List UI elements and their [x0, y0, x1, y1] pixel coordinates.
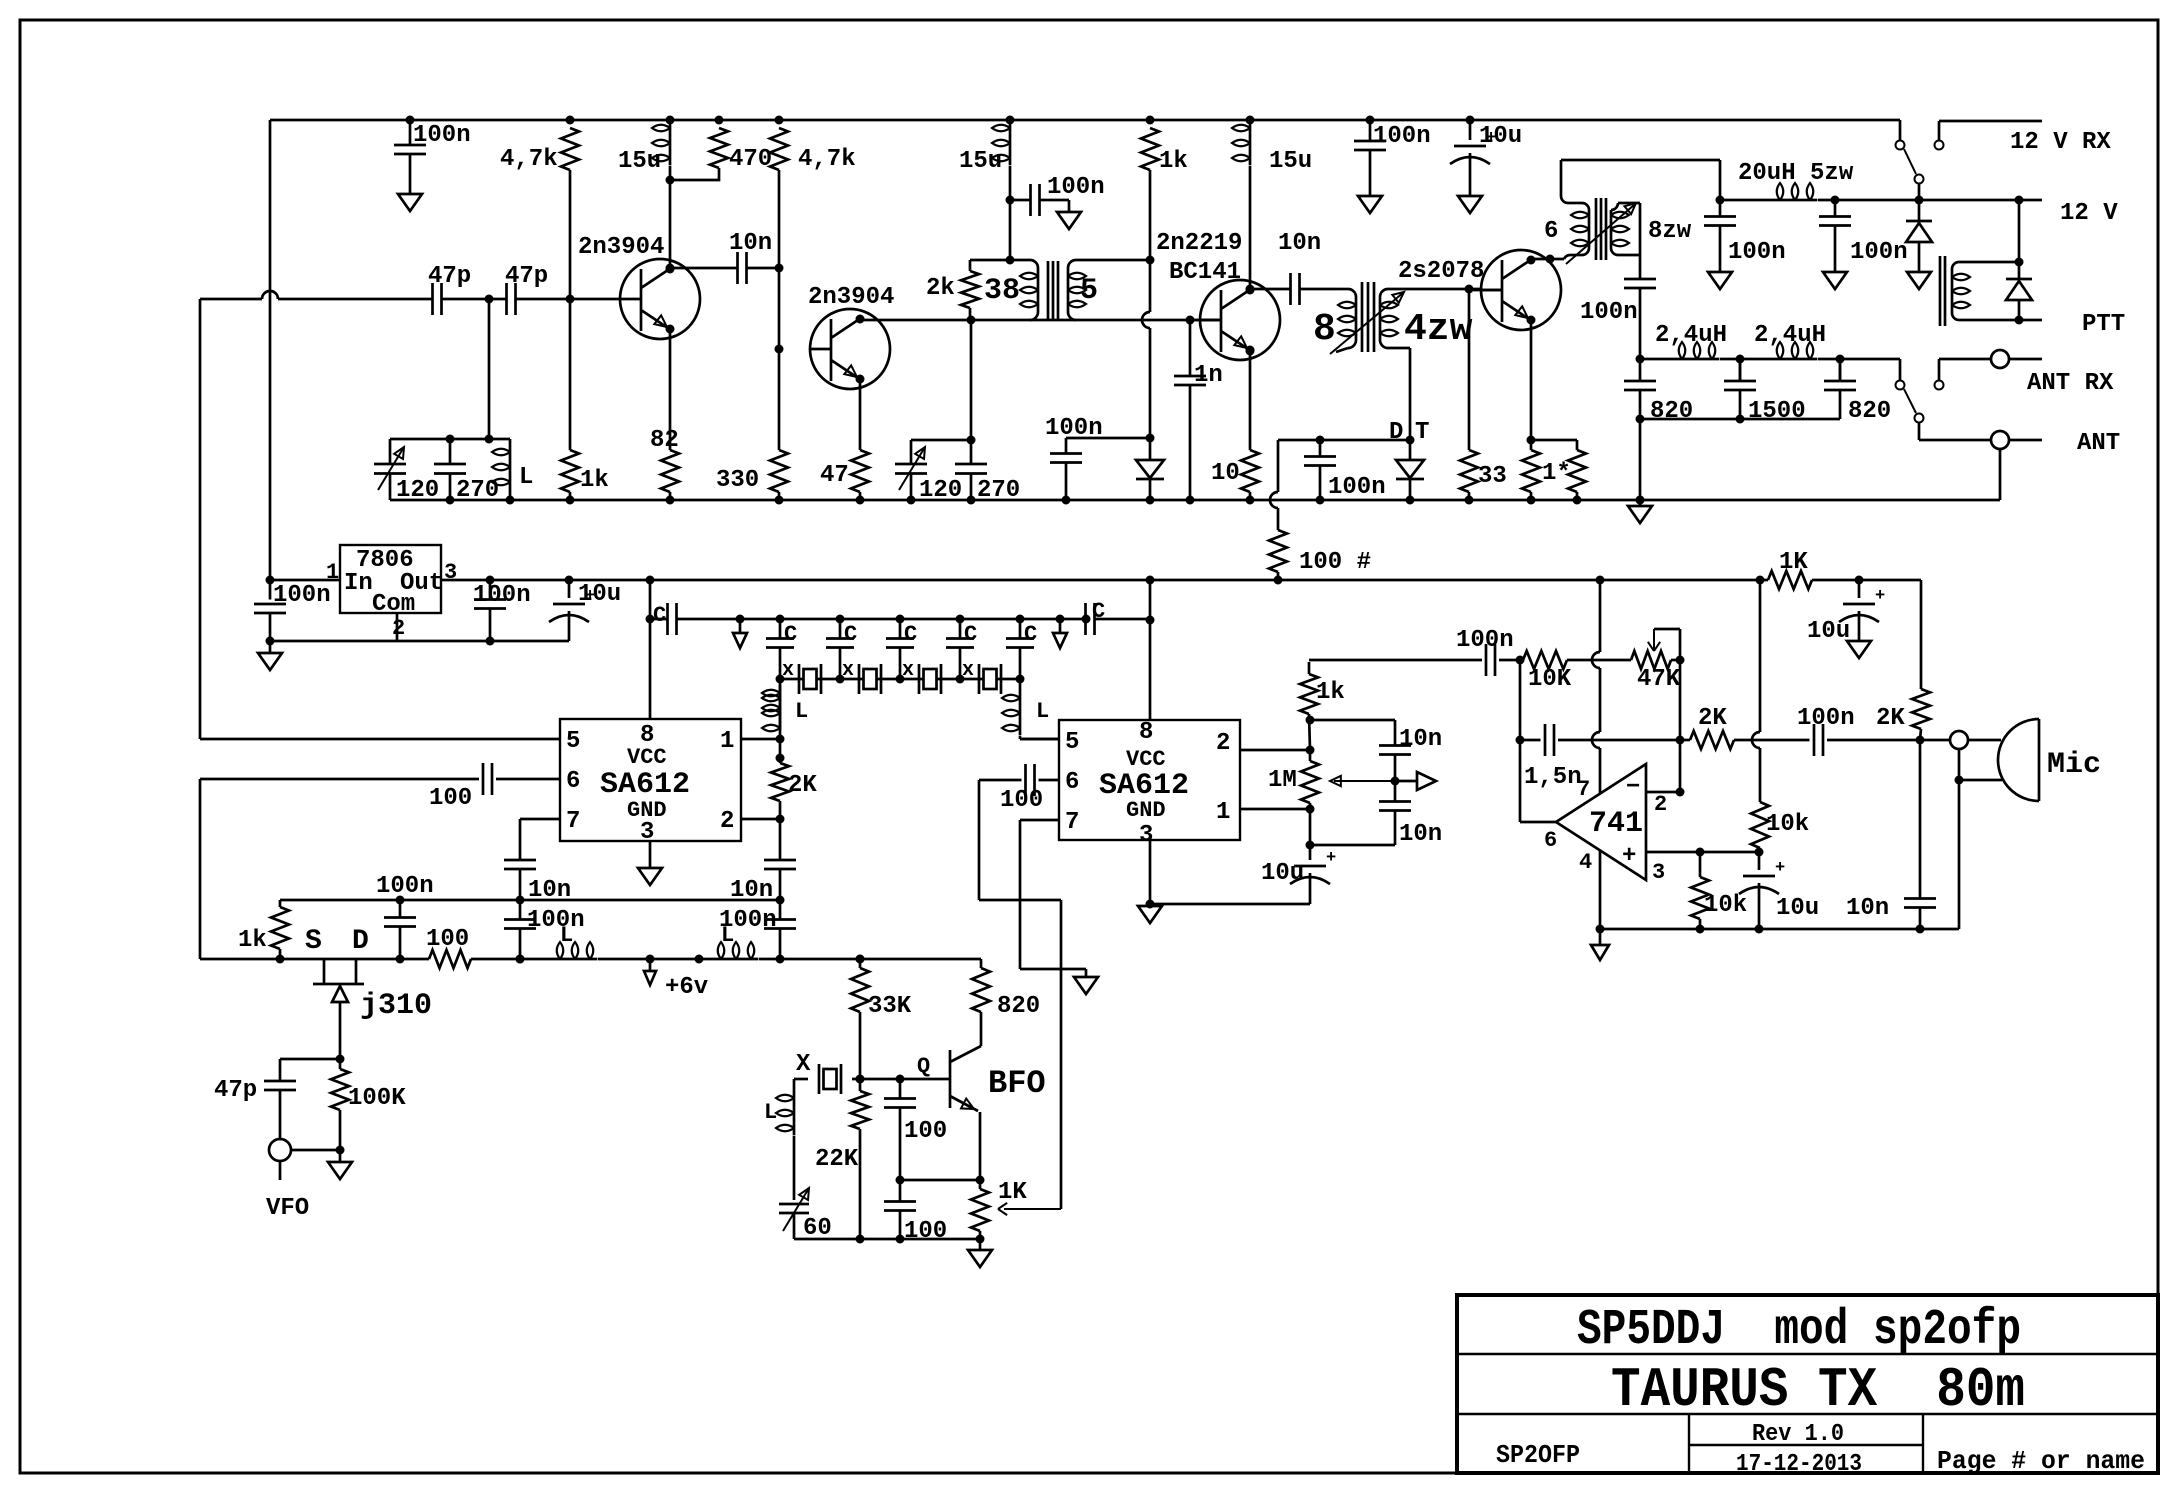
svg-text:100 #: 100 # — [1299, 549, 1371, 576]
svg-text:100n: 100n — [1328, 474, 1386, 501]
svg-text:5: 5 — [566, 728, 580, 755]
svg-text:6: 6 — [1544, 828, 1557, 853]
svg-text:10n: 10n — [1846, 895, 1889, 922]
svg-text:47K: 47K — [1637, 666, 1681, 693]
svg-text:100n: 100n — [1456, 627, 1514, 654]
svg-text:1: 1 — [1216, 799, 1230, 826]
svg-text:+: + — [1326, 849, 1336, 868]
svg-text:1500: 1500 — [1748, 398, 1806, 425]
svg-text:L: L — [1036, 699, 1049, 724]
svg-text:Q: Q — [917, 1054, 930, 1079]
svg-text:5: 5 — [1080, 274, 1098, 308]
svg-text:L: L — [519, 464, 533, 491]
svg-text:100n: 100n — [527, 907, 585, 934]
svg-text:100: 100 — [429, 785, 472, 812]
svg-text:2,4uH: 2,4uH — [1655, 322, 1727, 349]
svg-text:820: 820 — [1848, 398, 1891, 425]
svg-text:+: + — [1622, 843, 1636, 870]
svg-text:3: 3 — [1652, 860, 1665, 885]
svg-text:1*: 1* — [1542, 460, 1571, 487]
svg-text:C: C — [653, 603, 666, 628]
svg-text:C: C — [964, 622, 977, 647]
svg-text:15u: 15u — [618, 148, 661, 175]
svg-text:100n: 100n — [1047, 174, 1105, 201]
svg-text:10k: 10k — [1704, 892, 1747, 919]
svg-text:10u: 10u — [1479, 123, 1522, 150]
svg-text:ANT RX: ANT RX — [2027, 370, 2114, 397]
svg-text:T: T — [1415, 419, 1429, 446]
svg-text:2: 2 — [720, 808, 734, 835]
svg-text:7: 7 — [1577, 777, 1590, 802]
svg-text:33K: 33K — [868, 993, 912, 1020]
svg-text:2: 2 — [1654, 792, 1667, 817]
svg-text:47p: 47p — [428, 263, 471, 290]
svg-text:15u: 15u — [959, 148, 1002, 175]
svg-text:Mic: Mic — [2047, 748, 2101, 782]
svg-text:1K: 1K — [1779, 549, 1808, 576]
svg-text:2: 2 — [1216, 730, 1230, 757]
svg-text:D: D — [352, 926, 369, 957]
svg-text:+: + — [1775, 859, 1785, 878]
svg-text:100n: 100n — [1797, 705, 1855, 732]
svg-text:2n2219: 2n2219 — [1156, 230, 1242, 257]
svg-text:100n: 100n — [1728, 239, 1786, 266]
svg-text:100n: 100n — [473, 582, 531, 609]
svg-text:PTT: PTT — [2082, 311, 2125, 338]
svg-text:10n: 10n — [1399, 726, 1442, 753]
svg-text:1k: 1k — [580, 467, 609, 494]
svg-text:20uH 5zw: 20uH 5zw — [1738, 160, 1854, 187]
svg-text:TAURUS TX 80m: TAURUS TX 80m — [1611, 1358, 2025, 1422]
svg-text:3: 3 — [640, 819, 654, 846]
svg-text:1,5n: 1,5n — [1524, 764, 1582, 791]
svg-text:22K: 22K — [815, 1146, 859, 1173]
svg-text:38: 38 — [984, 274, 1020, 308]
svg-text:x: x — [962, 659, 974, 682]
svg-text:4,7k: 4,7k — [500, 146, 558, 173]
svg-text:4zw: 4zw — [1404, 308, 1473, 351]
svg-text:+6v: +6v — [665, 974, 708, 1001]
svg-text:L: L — [721, 923, 734, 948]
svg-text:1k: 1k — [238, 927, 267, 954]
svg-text:10n: 10n — [729, 230, 772, 257]
svg-text:47p: 47p — [505, 263, 548, 290]
svg-text:BFO: BFO — [988, 1065, 1046, 1102]
svg-text:S: S — [305, 926, 322, 957]
svg-text:741: 741 — [1589, 807, 1643, 841]
svg-text:5: 5 — [1065, 729, 1079, 756]
svg-text:10n: 10n — [1399, 821, 1442, 848]
svg-text:10u: 10u — [1776, 895, 1819, 922]
svg-text:x: x — [842, 659, 854, 682]
svg-text:47: 47 — [820, 462, 849, 489]
svg-text:2s2078: 2s2078 — [1398, 258, 1484, 285]
svg-text:2n3904: 2n3904 — [578, 234, 664, 261]
svg-text:C: C — [784, 622, 797, 647]
svg-text:10k: 10k — [1766, 811, 1809, 838]
svg-text:1M: 1M — [1268, 767, 1297, 794]
svg-text:330: 330 — [716, 467, 759, 494]
svg-text:10K: 10K — [1528, 666, 1572, 693]
svg-text:82: 82 — [650, 427, 679, 454]
svg-text:BC141: BC141 — [1169, 259, 1241, 286]
svg-text:2k: 2k — [926, 275, 955, 302]
svg-text:VFO: VFO — [266, 1195, 309, 1222]
svg-text:100n: 100n — [1373, 123, 1431, 150]
svg-text:1K: 1K — [998, 1179, 1027, 1206]
svg-text:In: In — [344, 570, 373, 597]
svg-text:L: L — [560, 923, 573, 948]
svg-text:820: 820 — [1650, 398, 1693, 425]
svg-text:1k: 1k — [1159, 148, 1188, 175]
svg-text:1k: 1k — [1316, 679, 1345, 706]
svg-text:100: 100 — [904, 1218, 947, 1245]
svg-text:+: + — [1875, 587, 1885, 606]
svg-text:2,4uH: 2,4uH — [1754, 322, 1826, 349]
svg-text:X: X — [796, 1051, 811, 1078]
svg-text:100: 100 — [1000, 787, 1043, 814]
svg-text:SP2OFP: SP2OFP — [1496, 1440, 1580, 1470]
svg-text:10n: 10n — [1278, 230, 1321, 257]
svg-text:Com: Com — [372, 591, 415, 618]
svg-text:1n: 1n — [1194, 362, 1223, 389]
svg-text:SP5DDJ mod sp2ofp: SP5DDJ mod sp2ofp — [1577, 1302, 2021, 1359]
svg-text:17-12-2013: 17-12-2013 — [1736, 1451, 1862, 1478]
svg-text:10u: 10u — [1261, 860, 1304, 887]
svg-text:VCC: VCC — [627, 745, 667, 770]
svg-text:100n: 100n — [273, 582, 331, 609]
svg-text:D: D — [1389, 419, 1403, 446]
svg-text:4,7k: 4,7k — [798, 146, 856, 173]
svg-text:x: x — [902, 659, 914, 682]
svg-text:SA612: SA612 — [600, 768, 690, 802]
svg-text:ANT: ANT — [2077, 430, 2120, 457]
svg-text:7: 7 — [566, 808, 580, 835]
svg-text:47p: 47p — [214, 1077, 257, 1104]
svg-text:100n: 100n — [1580, 299, 1638, 326]
svg-text:GND: GND — [1126, 798, 1166, 823]
svg-text:15u: 15u — [1269, 148, 1312, 175]
svg-text:j310: j310 — [360, 989, 432, 1023]
svg-text:100: 100 — [904, 1118, 947, 1145]
svg-text:2K: 2K — [1876, 705, 1905, 732]
svg-text:x: x — [782, 659, 794, 682]
svg-text:470: 470 — [729, 146, 772, 173]
svg-text:6: 6 — [1544, 218, 1558, 245]
svg-text:Rev 1.0: Rev 1.0 — [1752, 1421, 1844, 1448]
svg-text:4: 4 — [1579, 850, 1592, 875]
svg-text:C: C — [1092, 599, 1105, 624]
svg-text:8: 8 — [1313, 308, 1336, 351]
svg-text:7: 7 — [1065, 809, 1079, 836]
svg-text:10u: 10u — [1807, 618, 1850, 645]
svg-text:−: − — [1626, 774, 1640, 801]
svg-text:2K: 2K — [788, 772, 817, 799]
svg-text:12 V RX: 12 V RX — [2010, 129, 2111, 156]
svg-text:L: L — [795, 699, 808, 724]
svg-text:100: 100 — [426, 926, 469, 953]
svg-text:C: C — [1024, 622, 1037, 647]
svg-text:100n: 100n — [413, 122, 471, 149]
svg-text:6: 6 — [1065, 769, 1079, 796]
svg-text:6: 6 — [566, 768, 580, 795]
svg-text:8: 8 — [1139, 719, 1153, 746]
svg-text:100n: 100n — [1045, 415, 1103, 442]
svg-text:2: 2 — [392, 616, 405, 641]
svg-text:10: 10 — [1211, 460, 1240, 487]
svg-text:1: 1 — [720, 728, 734, 755]
svg-text:100n: 100n — [376, 873, 434, 900]
svg-text:L: L — [764, 1100, 777, 1125]
svg-text:100n: 100n — [1850, 239, 1908, 266]
svg-text:C: C — [904, 622, 917, 647]
svg-text:2n3904: 2n3904 — [808, 284, 894, 311]
svg-text:10u: 10u — [578, 581, 621, 608]
svg-text:100K: 100K — [348, 1085, 406, 1112]
svg-text:2K: 2K — [1698, 705, 1727, 732]
svg-text:820: 820 — [997, 993, 1040, 1020]
svg-text:Page # or name: Page # or name — [1937, 1446, 2145, 1476]
svg-text:C: C — [844, 622, 857, 647]
svg-text:12 V: 12 V — [2060, 200, 2118, 227]
svg-text:33: 33 — [1478, 463, 1507, 490]
svg-text:8zw: 8zw — [1648, 218, 1692, 245]
